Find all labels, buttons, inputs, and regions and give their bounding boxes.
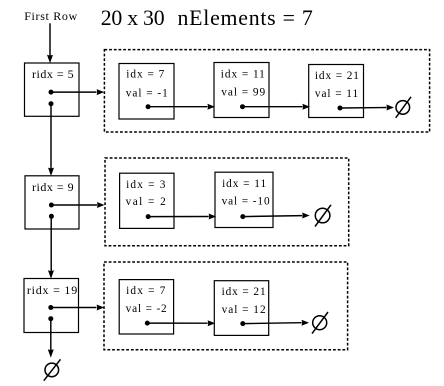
svg-text:ridx = 9: ridx = 9 [32, 180, 74, 194]
pointer dot ridx19 next-row [48, 316, 53, 321]
node ridx = 9 [25, 176, 79, 229]
svg-text:idx = 21: idx = 21 [315, 70, 359, 82]
wire node21 to node22 [148, 216, 209, 218]
svg-text:idx = 3: idx = 3 [126, 179, 166, 191]
pointer dot ridx5 next-node [49, 90, 54, 95]
null terminator row 3 [313, 316, 327, 330]
wire ridx19 to row3 list [51, 307, 97, 309]
wire ridx9 to ridx19 [50, 216, 52, 271]
svg-text:First Row: First Row [24, 9, 77, 23]
svg-text:idx = 11: idx = 11 [222, 178, 266, 190]
dashed row 3 box [104, 262, 348, 350]
null terminator row 2 [315, 208, 330, 223]
null terminator column [45, 363, 59, 377]
wire ridx5 to ridx9 [50, 104, 52, 169]
svg-text:idx = 7: idx = 7 [126, 285, 166, 297]
wire ridx9 to row2 list [51, 204, 97, 206]
svg-text:nElements = 7: nElements = 7 [178, 6, 313, 30]
pointer dot ridx9 next-row [49, 214, 54, 219]
svg-text:idx = 11: idx = 11 [221, 68, 265, 80]
svg-text:val = 99: val = 99 [221, 87, 265, 99]
pointer dot ridx9 next-node [49, 203, 54, 208]
svg-text:idx = 7: idx = 7 [126, 69, 164, 81]
wire First Row to ridx5 [49, 23, 51, 56]
wire ridx5 to row1 list [51, 91, 97, 93]
node idx21/val12 [214, 281, 268, 336]
wire node32 to null [243, 322, 302, 325]
node idx7/val-2 [119, 280, 173, 334]
wire node13 to null [340, 107, 387, 110]
pointer dot node32 [240, 321, 245, 326]
pointer dot node22 [240, 214, 245, 219]
pointer dot node13 [338, 106, 343, 111]
node idx7/val-1 [119, 64, 174, 120]
svg-text:val = -2: val = -2 [126, 303, 167, 315]
svg-text:val = 12: val = 12 [222, 304, 266, 316]
wire node31 to node32 [147, 322, 207, 324]
wire node22 to null [243, 216, 302, 217]
svg-text:val = -10: val = -10 [222, 196, 270, 208]
pointer dot ridx19 next-node [48, 305, 53, 310]
node ridx = 19 [24, 279, 79, 333]
node idx21/val11 [309, 65, 364, 118]
dashed row 2 box [105, 158, 349, 246]
svg-text:ridx = 5: ridx = 5 [32, 67, 74, 81]
wire node12 to node13 [243, 106, 303, 108]
node idx11/val99 [214, 63, 269, 118]
pointer dot node12 [240, 104, 245, 109]
wire node11 to node12 [148, 106, 207, 108]
svg-text:ridx = 19: ridx = 19 [27, 283, 77, 297]
node idx3/val2 [120, 173, 174, 228]
svg-text:idx = 21: idx = 21 [222, 286, 266, 298]
pointer dot ridx5 next-row [49, 101, 54, 106]
null terminator row 1 [396, 101, 410, 115]
svg-text:20 x 30: 20 x 30 [101, 6, 165, 30]
svg-text:val = -1: val = -1 [126, 87, 168, 99]
pointer dot node11 [146, 104, 151, 109]
pointer dot node21 [146, 214, 151, 219]
wire ridx19 to null [50, 319, 52, 351]
node ridx = 5 [25, 63, 80, 116]
dashed row 1 box [104, 50, 429, 132]
node idx11/val-10 [215, 172, 273, 227]
svg-text:val = 11: val = 11 [315, 88, 358, 100]
pointer dot node31 [145, 321, 150, 326]
